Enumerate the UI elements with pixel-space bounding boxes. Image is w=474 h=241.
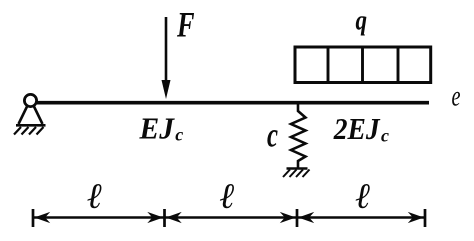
svg-text:ℓ: ℓ <box>356 176 371 216</box>
svg-text:F: F <box>176 5 194 45</box>
svg-text:c: c <box>175 125 183 145</box>
svg-text:2EJ: 2EJ <box>333 111 381 146</box>
svg-text:ℓ: ℓ <box>87 176 102 216</box>
svg-text:q: q <box>356 5 368 37</box>
svg-text:EJ: EJ <box>139 111 176 146</box>
svg-text:e: e <box>452 80 461 113</box>
svg-text:c: c <box>267 116 278 155</box>
svg-text:ℓ: ℓ <box>220 176 235 216</box>
svg-text:c: c <box>381 126 389 146</box>
